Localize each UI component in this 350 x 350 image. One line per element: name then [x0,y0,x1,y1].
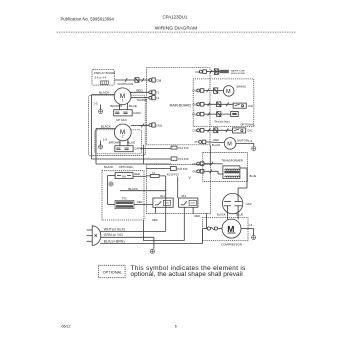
svg-text:BLUE: BLUE [250,174,257,178]
wire main board bottom to heater area [143,145,145,164]
ground G1 [100,105,102,110]
connector plug on display wire [135,78,139,83]
svg-text:BLACK: BLACK [217,213,226,217]
header separator dashed line [57,31,296,33]
svg-text:P13 P10: P13 P10 [178,157,189,161]
svg-text:5-6 or 3-4: 5-6 or 3-4 [95,75,107,79]
sensor hatched block [219,70,229,73]
svg-text:40/19 P10: 40/19 P10 [167,173,179,177]
svg-text:BLACK: BLACK [212,143,221,147]
connector plug swing [214,88,218,93]
overload protector OL [207,227,210,230]
svg-text:OPTIONAL: OPTIONAL [240,122,255,126]
svg-text:RED: RED [136,89,143,93]
run capacitor CAP [222,193,242,213]
plug prong 1 [87,229,93,231]
svg-text:1-5: 1-5 [248,223,253,227]
row CN2 remote display : pin [197,103,200,106]
svg-text:CN2: CN2 [192,104,198,107]
wire capacitor CAP1 to P12 [140,148,171,150]
connector plug CN1 row [214,128,218,133]
wire motor M4 to ground [236,142,254,144]
disconnect tick [226,103,228,107]
svg-text:RED: RED [134,172,140,176]
svg-text:7A: 7A [152,171,155,175]
svg-text:CN11: CN11 [156,124,163,127]
row CN6 water tube sensor : pin [199,70,202,73]
svg-text:CN4: CN4 [192,163,198,166]
main board pin CN11 [149,124,152,127]
svg-text:UP FAN: UP FAN [116,118,126,122]
wire plug black [100,243,202,245]
wire to swing motor [204,90,224,92]
remote input box [231,111,239,116]
svg-text:WIRING DIAGRAM: WIRING DIAGRAM [155,26,197,32]
wire relay RL4 down to compressor feed [155,207,157,213]
ground G5 near plug [150,249,154,253]
wire M2 to capacitor brown [119,140,121,146]
swing motor M3 [223,86,234,97]
svg-text:YEL/BLU: YEL/BLU [137,98,148,102]
svg-text:RED: RED [214,138,220,142]
main board pin F2 [149,96,152,99]
wire M2 black to left [96,128,115,130]
svg-text:CN1: CN1 [192,130,198,133]
svg-text:CN6: CN6 [195,71,201,74]
svg-text:TRANSFORMER: TRANSFORMER [221,159,243,163]
transformer T1 outer box [203,153,248,182]
ground G4 [109,182,113,186]
svg-text:BLK(or BRN): BLK(or BRN) [104,239,125,243]
svg-text:MAIN BOARD: MAIN BOARD [170,103,192,107]
wire RL4 to compressor [205,214,207,229]
svg-text:SW: SW [122,175,127,178]
wire display board to main board CN8 [114,79,150,81]
wire M1 to F2 [131,97,149,99]
svg-text:OPTIONAL: OPTIONAL [119,165,134,169]
wire cap to compressor blue [237,206,239,220]
wire transformer to run capacitor [240,167,247,169]
svg-text:Publication No. 5995613094: Publication No. 5995613094 [61,16,115,21]
wire compressor to ground [241,228,254,230]
disconnect tick on M2 wire [141,124,144,128]
transformer pin CN4a [197,162,200,165]
plug prong 2 [87,235,93,237]
svg-text:CPA123DU1: CPA123DU1 [163,15,188,20]
svg-text:CN3: CN3 [192,171,198,174]
ground G3 [252,147,256,151]
svg-text:WATER TUBE: WATER TUBE [231,70,246,73]
wire main board to power board right [209,145,211,165]
motor M4 [224,138,236,150]
wire pin to winding 2 [204,170,218,172]
svg-text:1-5: 1-5 [248,139,253,143]
svg-text:PTC: PTC [122,198,127,201]
wire plug white [100,230,166,232]
svg-text:MOTOR: MOTOR [237,139,248,143]
compressor dotted box [203,218,249,241]
svg-text:RL4: RL4 [182,194,187,198]
fan assembly enclosure box [89,95,146,155]
svg-text:P12 P10: P12 P10 [178,146,189,150]
connector P12/P10 [171,146,177,149]
fuse F7 7A [146,175,165,177]
svg-text:BLUE: BLUE [127,141,135,145]
wire remote input row [204,113,231,115]
svg-text:CAP2: CAP2 [133,111,141,115]
svg-text:1: 1 [122,98,124,102]
row remote input : pin CN5 [197,113,200,116]
heater dashed box [102,171,144,220]
svg-text:1-5: 1-5 [103,137,108,141]
svg-text:P15 P16: P15 P16 [178,167,189,171]
svg-text:BROWN: BROWN [110,104,122,108]
svg-text:6: 6 [175,325,177,329]
svg-text:DOWN FAN: DOWN FAN [118,82,134,86]
row swing motor : pin CN7 [197,89,200,92]
main board U1 (solid box) [146,68,210,145]
svg-text:M: M [226,89,231,95]
main board pin F1 [149,91,152,94]
wire cap to compressor black [226,206,228,220]
svg-text:Remote Input: Remote Input [215,120,230,123]
wire M1 to capacitor brown [119,104,121,110]
svg-text:BROWN: BROWN [109,141,121,145]
connector plug CN2 row [217,102,221,107]
wire F5 to motor [206,141,225,144]
wire heater left loop [108,204,116,206]
optional legend dashed box [99,265,126,277]
row F5 motor : pin [199,140,202,143]
connector with cross [214,69,218,75]
display board connector CN [100,81,108,84]
svg-text:BLUE: BLUE [129,104,137,108]
capacitor CAP1 box [115,146,133,152]
svg-text:BLACK: BLACK [104,165,114,169]
svg-text:RED: RED [195,214,201,218]
svg-text:RED: RED [137,200,143,204]
svg-text:RED: RED [152,218,158,222]
disconnect tick 2 on display wire [142,78,144,82]
ground G6 compressor [252,235,256,239]
svg-text:BLACK: BLACK [99,91,110,95]
wire CN6 to sensor [206,71,219,73]
svg-text:2: 2 [122,134,124,138]
optional dashed box (swing/remote) [193,79,254,127]
compressor motor M5 [222,219,241,238]
plug prong 3 [87,240,93,242]
connector P15/P16 [146,168,170,170]
switch box CN1 [233,128,246,133]
wire M2 to CN11 [131,124,149,126]
ground G2 [100,140,102,144]
svg-text:DISPLAY BOARD: DISPLAY BOARD [94,71,115,75]
svg-text:CN1: CN1 [247,129,253,132]
wire M2 to capacitor blue [127,140,129,146]
transformer winding box [223,166,240,179]
disconnect tick on display wire [125,78,127,82]
wire CN1 row [204,129,233,131]
capacitor CAP2 box [114,110,133,116]
svg-text:optional, the actual shape sha: optional, the actual shape shall prevail [131,271,244,278]
up fan unit inner box [95,130,142,154]
wire CN2 row [204,103,233,105]
svg-text:GRN or Y/G: GRN or Y/G [104,233,123,237]
wire heater to relay RL1 [134,204,153,206]
power plug P1 [92,226,101,246]
disconnect tick [210,70,212,74]
disconnect tick [226,129,228,133]
wires down from connector stack [177,177,179,199]
power board box [146,164,210,213]
svg-text:COMPRESSOR: COMPRESSOR [221,242,242,246]
wire pin to winding [204,163,223,165]
fan motor M2 (up fan) [114,124,131,141]
wire heater box down [143,220,145,241]
svg-text:SWING: SWING [236,84,247,88]
svg-text:1-5: 1-5 [93,102,98,106]
svg-text:BLUE: BLUE [236,213,243,217]
connector plug remote input [217,112,221,117]
svg-text:CAP: CAP [246,202,252,206]
wire M1 to capacitor blue [127,104,129,110]
receiver box [233,103,246,108]
svg-text:CN2: CN2 [248,105,254,108]
svg-text:M: M [227,224,234,234]
switch box in heater area [115,173,133,179]
main board pin CN8 [149,79,152,82]
wire plug green/yellow [101,236,154,238]
svg-text:WHT(or BLK): WHT(or BLK) [104,227,125,231]
PTC heater hatched element [115,200,134,208]
svg-text:CN8: CN8 [156,79,162,82]
svg-text:BLACK: BLACK [101,125,112,129]
wire M1 black to left [92,94,115,96]
svg-text:OPTIONAL: OPTIONAL [103,270,124,275]
fan motor M1 (down fan) [114,88,131,105]
svg-text:06/12: 06/12 [62,325,71,329]
connector P13/P10 [171,157,177,160]
row CN1 : pin below optional box [197,129,200,132]
svg-text:RL1: RL1 [160,194,165,198]
svg-text:CN5: CN5 [192,113,198,116]
transformer pin CN3a [197,170,200,173]
svg-text:M: M [227,141,232,147]
svg-text:CN7: CN7 [192,90,198,93]
svg-text:SENSOR BRD: SENSOR BRD [231,73,246,75]
display board U10 (dashed box) [92,69,114,85]
wire M1 red to F1 [130,91,149,93]
